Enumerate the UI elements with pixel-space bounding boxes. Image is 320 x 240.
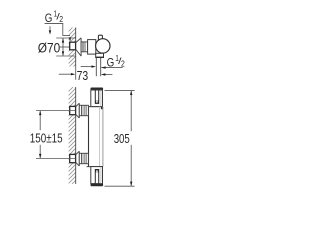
305 bottom extension line	[105, 185, 135, 187]
outlet pipe (top view)	[96, 58, 100, 76]
top union pipe box in wall	[70, 106, 76, 114]
bottom union escutcheon cone	[76, 151, 79, 166]
small dark mark top-right of body	[101, 107, 103, 109]
150±15 bottom extension line	[36, 158, 75, 160]
svg-text:73: 73	[77, 68, 89, 83]
305 dimension line lower segment with down arrow	[130, 145, 132, 186]
union nut (top view)	[81, 42, 88, 52]
wall face line (top view)	[75, 28, 77, 67]
handle circle (top view)	[96, 39, 110, 53]
temperature slot in top knob	[95, 90, 99, 103]
second down arrow under G 1/2	[49, 26, 51, 34]
leader line under right G 1/2 with arrow to pipe	[101, 67, 122, 69]
left arrow pointing at pipe	[81, 65, 96, 67]
Ø70 extension line bottom	[56, 55, 75, 57]
svg-text:2: 2	[59, 14, 63, 24]
top union nut	[79, 105, 88, 115]
svg-text:150±15: 150±15	[30, 131, 63, 146]
label G 1/2 (top left)	[45, 8, 63, 25]
top knob	[91, 90, 103, 107]
150±15 top extension line	[36, 110, 75, 112]
svg-text:2: 2	[121, 58, 125, 68]
svg-text:305: 305	[114, 131, 130, 146]
leader elbow down from underline	[63, 23, 70, 35]
bottom union nut	[79, 153, 88, 163]
bottom cap bar of mixer	[91, 184, 104, 187]
escutcheon cone (top view)	[76, 38, 81, 56]
wall face line (front view)	[75, 87, 77, 184]
leader line from Ø70 to union	[60, 46, 76, 48]
150±15 dimension line lower segment with down arrow	[39, 145, 41, 159]
outlet flange below circle	[96, 53, 104, 57]
73 dimension: wall-face extension line	[75, 67, 77, 80]
mixer body (front view)	[87, 107, 103, 167]
leader underline for G 1/2 (top left)	[45, 22, 64, 24]
Ø70 extension line top	[56, 37, 75, 39]
top cap bar of mixer	[91, 88, 104, 91]
73 dimension left arrow (outside, points right)	[59, 73, 76, 75]
label G 1/2 (right of pipe)	[107, 53, 125, 70]
valve body (top view)	[88, 40, 96, 55]
knob stub on top of circle	[98, 35, 102, 41]
Ø70 dimension line with arrows	[62, 38, 64, 56]
73 dimension right arrow (outside, points left)	[101, 73, 112, 75]
305 dimension line upper segment with up arrow	[130, 91, 132, 132]
svg-text:Ø70: Ø70	[38, 40, 60, 55]
leader arrow at union (points down)	[69, 37, 71, 41]
svg-text:G: G	[45, 11, 53, 25]
wall (front view) hatched section	[60, 76, 84, 216]
slot in bottom knob	[95, 169, 99, 183]
wall (top view) hatched section	[60, 12, 84, 92]
union pipe box in wall (top view)	[70, 42, 76, 50]
top union escutcheon cone	[76, 103, 79, 118]
bottom knob	[91, 167, 103, 184]
305 top extension line	[105, 89, 135, 91]
150±15 dimension line upper segment with up arrow	[39, 111, 41, 131]
bottom union pipe box in wall	[70, 154, 76, 162]
